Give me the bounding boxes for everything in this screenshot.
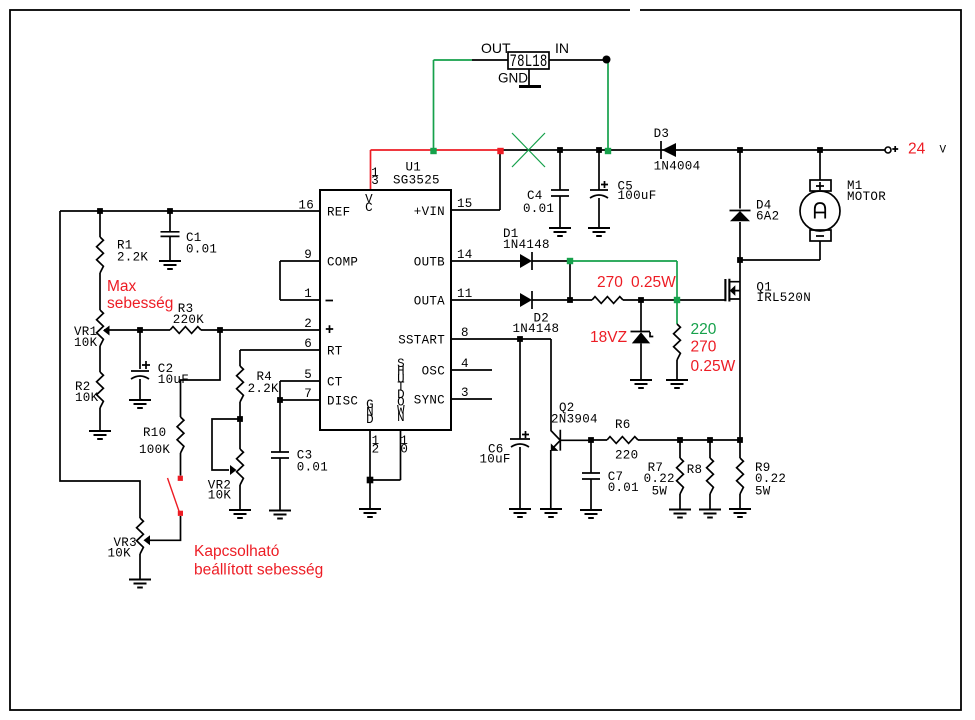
svg-text:270: 270 — [691, 339, 717, 356]
svg-text:1: 1 — [304, 287, 312, 301]
svg-text:OUT: OUT — [481, 40, 511, 56]
svg-text:8: 8 — [461, 326, 469, 340]
svg-text:7: 7 — [304, 387, 312, 401]
svg-text:2: 2 — [372, 443, 380, 457]
svg-text:10K: 10K — [75, 391, 99, 405]
svg-text:10K: 10K — [108, 546, 132, 560]
svg-text:18VZ: 18VZ — [590, 329, 627, 346]
svg-text:14: 14 — [457, 248, 473, 262]
svg-text:4: 4 — [461, 357, 469, 371]
svg-text:0.01: 0.01 — [186, 242, 217, 256]
svg-text:sebesség: sebesség — [107, 295, 173, 312]
svg-text:2.2K: 2.2K — [117, 250, 148, 264]
svg-text:R6: R6 — [615, 418, 631, 432]
svg-text:2.2K: 2.2K — [248, 382, 279, 396]
svg-text:10K: 10K — [74, 336, 98, 350]
svg-text:15: 15 — [457, 197, 473, 211]
svg-text:16: 16 — [298, 199, 314, 213]
svg-text:1N4148: 1N4148 — [513, 322, 560, 336]
svg-text:1N4148: 1N4148 — [503, 238, 550, 252]
svg-text:RT: RT — [327, 345, 343, 359]
svg-text:78L18: 78L18 — [510, 52, 548, 72]
svg-text:2N3904: 2N3904 — [551, 413, 598, 427]
svg-text:0.01: 0.01 — [297, 461, 328, 475]
svg-text:D: D — [366, 413, 374, 427]
svg-text:OSC: OSC — [422, 365, 445, 379]
svg-text:Max: Max — [107, 278, 137, 295]
svg-text:Kapcsolható: Kapcsolható — [194, 543, 279, 560]
svg-text:DISC: DISC — [327, 395, 358, 409]
svg-text:C4: C4 — [527, 189, 543, 203]
svg-text:9: 9 — [304, 248, 312, 262]
svg-text:1N4004: 1N4004 — [654, 160, 701, 174]
svg-text:5W: 5W — [755, 485, 771, 499]
svg-text:GND: GND — [498, 71, 528, 86]
svg-text:0.25W: 0.25W — [631, 274, 676, 291]
svg-text:220K: 220K — [173, 313, 204, 327]
svg-text:IN: IN — [555, 40, 569, 56]
svg-text:C: C — [365, 201, 373, 215]
svg-text:6: 6 — [304, 337, 312, 351]
svg-text:6A2: 6A2 — [756, 210, 779, 224]
svg-text:5W: 5W — [652, 485, 668, 499]
svg-text:5: 5 — [304, 368, 312, 382]
svg-text:COMP: COMP — [327, 256, 358, 270]
svg-text:10K: 10K — [208, 488, 232, 502]
svg-text:220: 220 — [615, 449, 638, 463]
svg-text:0.01: 0.01 — [608, 481, 639, 495]
svg-text:11: 11 — [457, 287, 473, 301]
svg-text:D3: D3 — [654, 127, 670, 141]
svg-text:100uF: 100uF — [618, 189, 657, 203]
svg-text:CT: CT — [327, 376, 343, 390]
svg-text:MOTOR: MOTOR — [847, 190, 886, 204]
svg-text:beállított sebesség: beállított sebesség — [194, 562, 323, 579]
svg-text:270: 270 — [597, 274, 623, 291]
svg-text:R10: R10 — [143, 426, 166, 440]
svg-text:SYNC: SYNC — [414, 394, 445, 408]
svg-text:0.01: 0.01 — [523, 202, 554, 216]
svg-text:3: 3 — [461, 386, 469, 400]
svg-text:0: 0 — [400, 443, 408, 457]
svg-text:N: N — [397, 411, 405, 425]
svg-text:+VIN: +VIN — [414, 205, 445, 219]
svg-text:24: 24 — [908, 141, 926, 158]
svg-text:2: 2 — [304, 317, 312, 331]
svg-text:0.25W: 0.25W — [691, 358, 736, 375]
svg-text:IRL520N: IRL520N — [756, 291, 811, 305]
svg-text:R8: R8 — [687, 463, 703, 477]
svg-text:10uF: 10uF — [158, 373, 189, 387]
svg-text:10uF: 10uF — [480, 453, 511, 467]
svg-text:100K: 100K — [139, 443, 170, 457]
svg-text:220: 220 — [691, 321, 717, 338]
svg-text:SSTART: SSTART — [398, 334, 445, 348]
svg-text:OUTB: OUTB — [414, 256, 445, 270]
svg-text:V: V — [940, 145, 947, 157]
svg-text:3: 3 — [371, 174, 379, 188]
svg-text:REF: REF — [327, 206, 350, 220]
svg-text:SG3525: SG3525 — [393, 173, 440, 187]
svg-text:OUTA: OUTA — [414, 295, 445, 309]
